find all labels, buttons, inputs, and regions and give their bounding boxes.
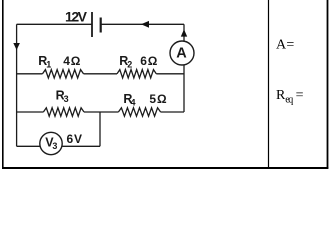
svg-text:Ω: Ω <box>148 54 158 68</box>
svg-text:6: 6 <box>140 54 147 68</box>
svg-text:A: A <box>176 46 187 62</box>
svg-text:12V: 12V <box>65 9 88 25</box>
svg-text:3: 3 <box>52 141 57 151</box>
svg-text:=: = <box>286 38 294 53</box>
svg-text:4: 4 <box>131 97 136 107</box>
svg-text:=: = <box>296 88 304 103</box>
svg-text:1: 1 <box>46 60 51 70</box>
svg-text:Ω: Ω <box>71 54 81 68</box>
svg-text:eq: eq <box>285 94 293 105</box>
svg-text:4: 4 <box>63 54 70 68</box>
svg-text:6: 6 <box>67 132 74 146</box>
svg-text:Ω: Ω <box>157 92 167 106</box>
svg-text:A: A <box>276 38 287 53</box>
svg-text:3: 3 <box>64 94 69 104</box>
svg-text:5: 5 <box>149 92 156 106</box>
svg-text:2: 2 <box>127 60 132 70</box>
svg-text:V: V <box>74 132 82 146</box>
